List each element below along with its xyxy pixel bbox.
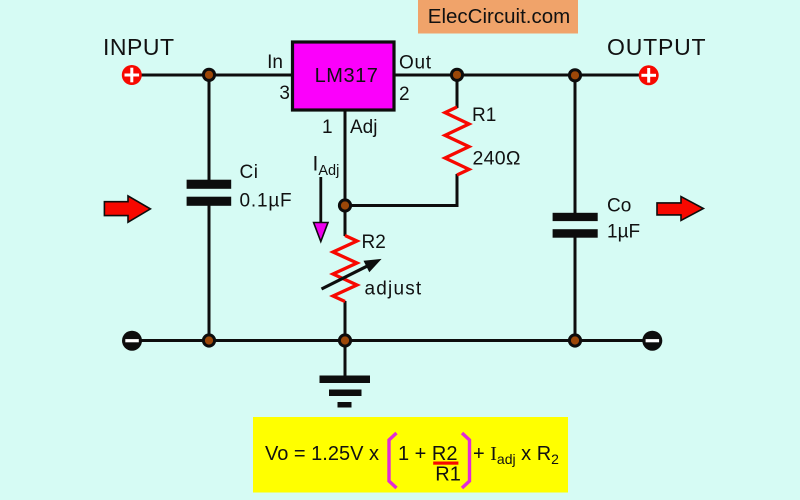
flow arrow left (input) [104,196,150,222]
svg-text:+ Iadj x R2: + Iadj x R2 [473,443,559,467]
wire bottom rail [132,339,652,342]
svg-text:Co: Co [607,196,631,217]
wire Co lower vertical [574,236,577,341]
wire R2 bottom vertical [344,301,347,341]
current arrow I_Adj [314,177,328,242]
svg-text:R1: R1 [472,105,496,126]
svg-text:INPUT: INPUT [103,34,175,60]
svg-text:ElecCircuit.com: ElecCircuit.com [428,5,570,28]
node junction at Co top [569,70,580,81]
node junction at R2 bottom rail [339,335,350,346]
svg-text:1: 1 [322,117,333,138]
terminal - left [122,331,142,351]
capacitor Co [553,213,598,238]
wire top rail left (input to LM317 In) [131,74,292,77]
resistor R2 (variable) [333,236,357,302]
terminal - right [642,331,662,351]
svg-text:0.1µF: 0.1µF [240,191,293,212]
svg-text:2: 2 [399,84,410,105]
svg-text:Adj: Adj [350,117,377,138]
wire top rail right (LM317 Out to output) [394,74,649,77]
svg-text:R1: R1 [435,464,461,486]
node junction at Adj/R2 [339,200,350,211]
svg-text:1µF: 1µF [607,222,640,243]
node junction at input/Ci [203,69,214,80]
wire Ci lower vertical [208,205,211,341]
svg-text:adjust: adjust [365,279,423,300]
wire R1 bottom vertical [456,174,459,206]
svg-text:In: In [267,52,283,73]
wire ground stem [344,341,347,378]
svg-text:Vo = 1.25V x: Vo = 1.25V x [265,443,379,465]
wire R1 to Adj node horizontal [345,204,459,207]
node junction at Ci bottom rail [203,335,214,346]
svg-text:Ci: Ci [240,162,259,183]
formula bracket right [462,433,470,488]
svg-text:3: 3 [279,83,290,104]
svg-text:Out: Out [399,53,432,74]
wire R1 top vertical [456,75,459,108]
ground [320,376,371,408]
op-amp U1 LM317 regulator box [293,42,395,110]
formula fraction line [433,462,458,465]
wire Ci upper vertical [208,75,211,181]
formula bracket left [389,433,397,488]
formula box [253,417,568,493]
svg-text:240Ω: 240Ω [473,148,521,170]
flow arrow right (output) [657,197,703,221]
terminal + output [639,65,659,85]
svg-text:LM317: LM317 [315,65,379,87]
resistor R1 [445,107,469,175]
wire Co upper vertical [574,75,577,214]
terminal + input [122,65,142,85]
banner ElecCircuit.com [418,0,578,34]
wire Adj pin vertical [344,111,347,236]
svg-text:R2: R2 [362,232,386,253]
node junction at Co bottom rail [569,335,580,346]
svg-text:OUTPUT: OUTPUT [607,34,706,60]
node junction at R1 top [451,69,462,80]
capacitor Ci [187,180,232,206]
wiper arrow of R2 [322,259,382,289]
